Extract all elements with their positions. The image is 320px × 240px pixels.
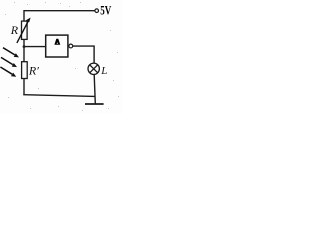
svg-text:5V: 5V	[100, 2, 111, 17]
background	[0, 0, 122, 114]
photoresistor R'	[22, 62, 28, 79]
amplifier box U1	[46, 35, 68, 57]
wire box output to lamp	[73, 46, 94, 63]
svg-text:L: L	[100, 65, 107, 77]
resistor R	[22, 21, 28, 39]
node divider junction	[23, 45, 26, 48]
svg-text:R′: R′	[28, 64, 39, 78]
wire lamp to ground	[94, 75, 95, 104]
svg-text:R: R	[10, 23, 19, 37]
resistor R arrow	[17, 18, 31, 43]
wire top rail	[24, 10, 95, 12]
wire divider to box input	[24, 46, 46, 48]
terminal 5V	[95, 9, 99, 13]
amplifier glyph A	[54, 39, 60, 45]
light arrow 1	[3, 48, 19, 58]
ground	[85, 103, 104, 105]
light arrow 2	[1, 57, 17, 67]
wire left vertical upper	[23, 10, 25, 21]
amplifier output bubble	[69, 44, 73, 48]
light arrow 3	[0, 67, 16, 77]
wire left vertical lower	[23, 78, 25, 95]
wire bottom rail	[23, 95, 95, 97]
lamp L	[88, 63, 99, 74]
wire left vertical middle	[23, 39, 25, 61]
